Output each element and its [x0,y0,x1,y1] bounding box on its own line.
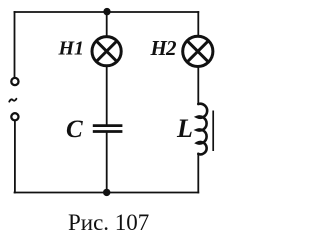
svg-text:H1: H1 [58,38,85,60]
svg-text:C: C [66,116,83,143]
svg-text:L: L [176,114,193,143]
svg-text:Рис. 107: Рис. 107 [68,210,149,235]
svg-text:H2: H2 [150,36,178,60]
